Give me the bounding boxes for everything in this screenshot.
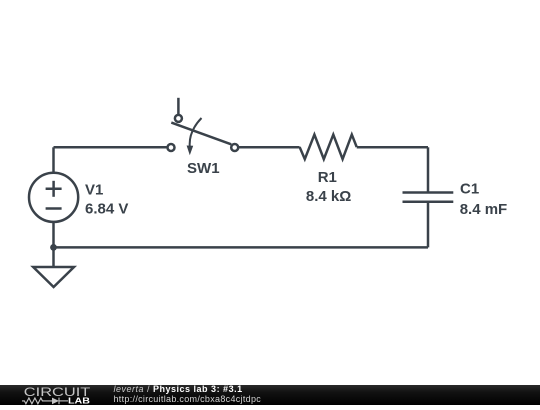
- wire switch to resistor: [238, 146, 299, 149]
- switch SW1 left terminal: [168, 144, 175, 151]
- wire right vertical top: [427, 147, 430, 192]
- switch SW1 stub: [177, 98, 180, 115]
- svg-text:V1: V1: [85, 181, 103, 198]
- wire right vertical bottom: [427, 202, 430, 248]
- switch SW1 actuate arrow: [190, 118, 202, 148]
- wire resistor to corner: [357, 146, 428, 149]
- wire top-left horizontal: [54, 146, 168, 149]
- wire V1 top vertical: [52, 147, 55, 173]
- svg-text:8.4 kΩ: 8.4 kΩ: [306, 188, 351, 205]
- node junction dot: [50, 244, 57, 251]
- svg-text:SW1: SW1: [187, 160, 220, 177]
- CircuitLab logo: [20, 385, 115, 406]
- footer bar: [0, 385, 540, 406]
- svg-text:C1: C1: [460, 181, 479, 198]
- ground: [33, 267, 74, 287]
- footer line 1: [114, 384, 243, 394]
- capacitor C1 plates: [403, 191, 454, 194]
- switch SW1 right terminal: [231, 144, 238, 151]
- footer line 2: [114, 394, 262, 404]
- switch SW1 blade: [171, 123, 231, 145]
- svg-text:6.84 V: 6.84 V: [85, 200, 128, 217]
- wire V1 bottom vertical: [52, 222, 55, 267]
- switch SW1 top terminal: [175, 115, 182, 122]
- wire bottom horizontal: [54, 246, 429, 249]
- voltage source V1: [29, 173, 78, 222]
- resistor R1: [300, 135, 357, 160]
- svg-text:R1: R1: [318, 169, 337, 186]
- svg-text:LAB: LAB: [68, 396, 90, 405]
- svg-text:8.4 mF: 8.4 mF: [460, 201, 508, 218]
